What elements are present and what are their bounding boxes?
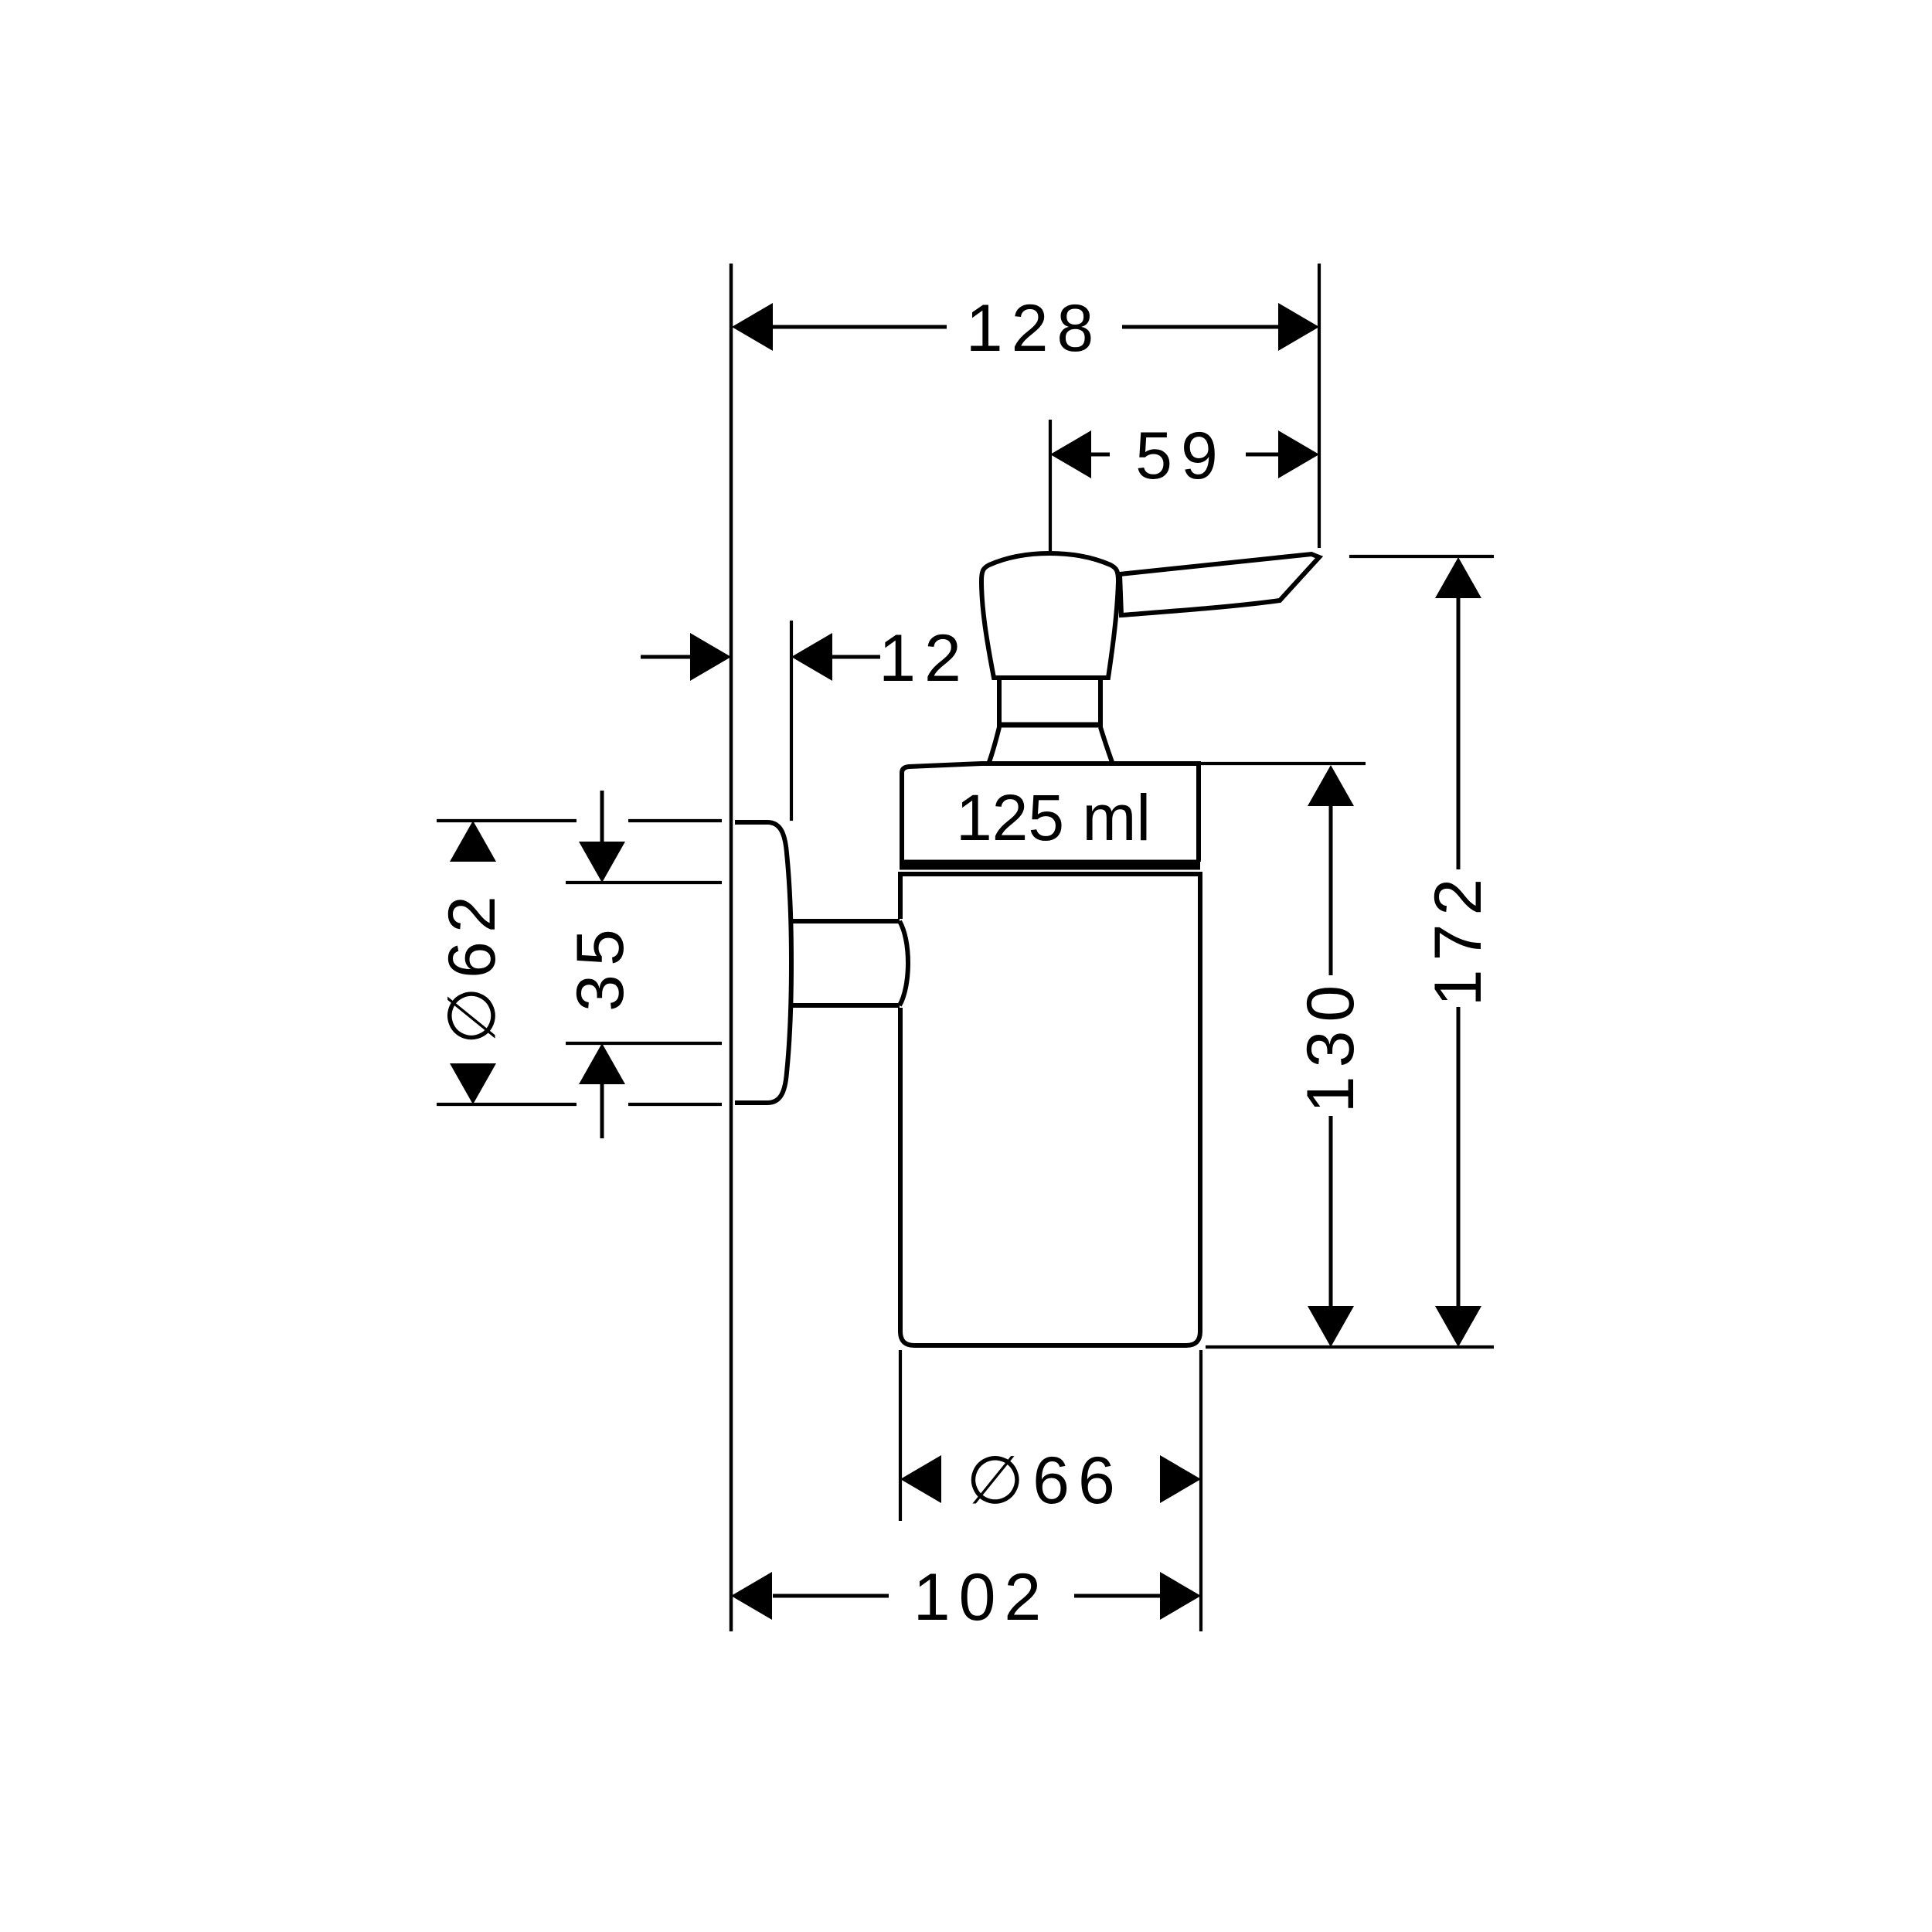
extension line top for 130 (band top): [1196, 762, 1366, 765]
pump neck bottom line: [997, 723, 1103, 728]
holder ring band (125 ml band): [902, 764, 1199, 862]
dimension 59 left arrowhead: [1050, 430, 1091, 478]
dimension 130 upper tail: [1329, 806, 1333, 975]
dimension 35 top arrow tail: [600, 791, 604, 843]
holder ring band bottom thick edge: [900, 860, 1200, 870]
dimension 35 bottom arrowhead (points up): [579, 1043, 625, 1084]
svg-text:59: 59: [1135, 419, 1226, 493]
dimension 172 upper tail: [1457, 598, 1461, 869]
pump neck right side: [1098, 678, 1103, 725]
extension line right for 128/59 (at spout tip x): [1318, 264, 1321, 548]
dimension 12 right tail: [832, 655, 880, 659]
dimension D62 top arrowhead (points up): [450, 821, 496, 862]
extension line top for D62 (plate top): [437, 819, 577, 822]
dimension 128 line right tail: [1122, 325, 1280, 329]
dimension 12 left tail: [641, 655, 690, 659]
svg-text:∅66: ∅66: [966, 1444, 1124, 1518]
svg-text:130: 130: [1294, 977, 1368, 1114]
dimension 59 right arrowhead: [1278, 430, 1319, 478]
dimension 35 top arrowhead (points down): [579, 842, 625, 883]
wall line (left extension line for 128 / 102, wall surface): [730, 264, 733, 1631]
svg-text:102: 102: [913, 1560, 1050, 1634]
dimension 102 right arrowhead (points right): [1160, 1572, 1201, 1620]
svg-text:125 ml: 125 ml: [956, 781, 1151, 854]
dimension 128 right arrowhead: [1278, 303, 1319, 351]
extension line right for D66/102 (bottle right): [1199, 1350, 1202, 1631]
dimension 59 line right tail: [1246, 453, 1280, 457]
dimension 130 lower tail: [1329, 1116, 1333, 1307]
holder arm end cap arc: [900, 921, 908, 1005]
dimension D66 right arrowhead (points right): [1160, 1455, 1201, 1503]
dimension 172 bottom arrowhead (points down): [1435, 1306, 1481, 1347]
dimension 35 bottom arrow tail: [600, 1084, 604, 1138]
dimension D66 left arrowhead (points left): [900, 1455, 941, 1503]
dimension 172 top arrowhead (points up): [1435, 557, 1481, 598]
holder arm bottom line: [789, 1003, 900, 1008]
svg-text:35: 35: [563, 920, 638, 1012]
pump collar flare left: [988, 727, 999, 764]
dimension 12 right arrowhead (points left at plate face): [791, 633, 832, 681]
dimension D62 bottom arrowhead (points down): [450, 1063, 496, 1104]
extension line top for 172 (spout tip level): [1349, 555, 1494, 558]
extension line for 12 (front face of wall plate): [790, 621, 793, 821]
wall plate (escutcheon) profile: [735, 822, 791, 1103]
extension line top for 35: [566, 881, 722, 884]
dimension 130 bottom arrowhead (points down): [1308, 1306, 1354, 1347]
extension line left for 59 (above pump head): [1049, 420, 1052, 553]
dimension 102 left arrowhead (points left): [731, 1572, 772, 1620]
pump head: [981, 553, 1118, 678]
dimension 12 left arrowhead (points right at wall): [690, 633, 731, 681]
dimension 128 left arrowhead: [732, 303, 773, 351]
pump lever spout: [1120, 554, 1319, 615]
svg-text:128: 128: [966, 291, 1103, 366]
dimension 172 lower tail: [1457, 1007, 1461, 1307]
svg-text:172: 172: [1421, 870, 1495, 1007]
holder arm top line: [789, 919, 900, 923]
svg-text:∅62: ∅62: [435, 887, 509, 1045]
extension line left for D66 (bottle left): [899, 1350, 902, 1521]
dimension 128 line left tail: [773, 325, 947, 329]
bottle body: [900, 874, 1200, 1345]
dimension 59 line left tail: [1091, 453, 1110, 457]
extension line bottom for 35: [566, 1042, 722, 1045]
extension line bottom for 130/172 (bottle bottom): [1206, 1345, 1494, 1349]
dimension 130 top arrowhead (points up): [1308, 765, 1354, 806]
svg-text:12: 12: [879, 621, 970, 696]
pump head bottom line: [992, 675, 1110, 680]
pump neck left side: [997, 678, 1002, 725]
pump collar flare right: [1100, 727, 1113, 764]
dimension 102 right tail: [1074, 1594, 1161, 1598]
extension line bottom for D62 (plate bottom): [437, 1103, 577, 1106]
dimension 102 left tail: [773, 1594, 889, 1598]
